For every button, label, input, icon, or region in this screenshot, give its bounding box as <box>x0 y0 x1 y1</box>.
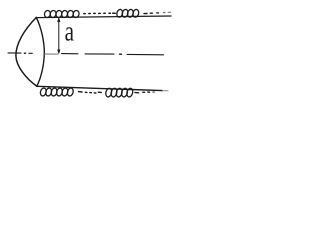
coil turn L2 <box>49 10 56 18</box>
node: hidden-wire marks bottom right <box>135 91 155 94</box>
coil turn TR4 <box>132 9 139 18</box>
wire: axis dash 5 <box>127 53 164 55</box>
coil turn BL4 <box>56 87 63 96</box>
coil turn BR3 <box>115 88 123 98</box>
coil turn L3 <box>55 10 62 18</box>
coil turn group: bottom-left helix (6 turns) <box>40 87 74 96</box>
coil turn TR1 <box>116 9 123 18</box>
arrowhead top <box>57 17 60 22</box>
coil turn BR1 <box>105 88 113 98</box>
wire: cylinder top wall line <box>36 16 171 18</box>
coil turn BR2 <box>110 88 118 98</box>
arrowhead bottom <box>57 50 60 55</box>
coil turn L4 <box>61 10 68 18</box>
node: axis dot 1 <box>24 52 25 54</box>
coil turn BR5 <box>126 88 134 98</box>
coil turn BR4 <box>121 88 129 98</box>
coil turn L5 <box>67 10 74 18</box>
node: axis dot 2 <box>120 53 122 55</box>
wire: axis short dash 2 <box>29 52 32 54</box>
coil turn BL1 <box>40 87 47 96</box>
dimension arrow: radius a (double-headed vertical) <box>58 20 60 52</box>
wire: short dash before top-right coil <box>113 12 115 14</box>
coil turn group: top-right helix (4 turns) <box>116 9 140 18</box>
coil turn BL2 <box>45 87 52 96</box>
node: cylinder end ellipse left arc <box>16 17 37 86</box>
coil turn BL3 <box>50 87 57 96</box>
coil turn L1 <box>44 10 51 18</box>
node: cylinder end ellipse right arc <box>36 17 44 86</box>
coil turn L6 <box>72 10 79 18</box>
node: hidden-wire marks top right <box>144 12 170 13</box>
coil turn BL5 <box>61 87 68 96</box>
wire: axis dash 3 <box>62 53 79 55</box>
coil turn BL6 <box>67 87 74 96</box>
wire: axis faint dash through ellipse <box>44 53 57 55</box>
wire: cylinder bottom wall line <box>37 86 163 90</box>
wire: cylinder bottom wall faint tail <box>163 90 169 92</box>
node: hidden-wire marks bottom middle <box>79 92 102 93</box>
node: hidden-wire dots top middle <box>84 12 115 14</box>
coil turn group: bottom-right helix (5 turns) <box>105 88 134 98</box>
coil turn TR3 <box>127 9 134 18</box>
wire: axis dash-dot centerline segment 1 <box>8 52 21 54</box>
coil turn group: top-left helix (6 turns) <box>44 10 80 18</box>
coil turn TR2 <box>121 9 128 18</box>
wire: axis dash 4 <box>85 53 114 55</box>
svg-text:a: a <box>65 16 74 48</box>
